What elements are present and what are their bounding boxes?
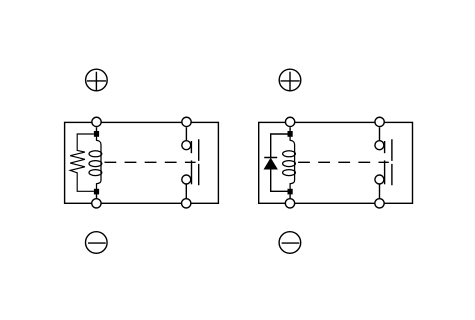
pin 4 (182, 199, 191, 208)
pin 7 (285, 199, 294, 208)
diode D1 (264, 134, 287, 191)
wire coil bottom junction to pin7 (289, 194, 291, 198)
pin 8 (375, 199, 384, 208)
battery negative terminal BT1- (86, 232, 108, 254)
pin 3 (92, 199, 101, 208)
contact circle NO (375, 175, 384, 184)
node junction bottom (coil/resistor) (94, 189, 99, 195)
contact circle NO (182, 175, 191, 184)
battery negative terminal BT2- (279, 232, 301, 254)
contact circle NC (375, 141, 384, 150)
pin 1 (92, 117, 101, 126)
resistor R1 (70, 134, 94, 191)
node junction top (coil/diode) (288, 131, 293, 137)
contact circle NC (182, 141, 191, 150)
relay K1 body (65, 122, 219, 203)
wire NO contact to pin4 (185, 184, 187, 198)
pin 6 (375, 117, 384, 126)
wire NO contact to pin8 (379, 184, 381, 198)
wire pin1 to coil top junction (96, 127, 98, 131)
relay K2 body (259, 122, 413, 203)
pin 2 (182, 117, 191, 126)
node junction bottom (coil/diode) (288, 189, 293, 195)
contact tick NC (190, 141, 192, 153)
relay coil L1 (89, 137, 102, 189)
armature link dashed line (298, 161, 389, 163)
wire pin2 to NC contact (185, 127, 187, 140)
contact blade (movable) (391, 139, 393, 185)
battery positive terminal BT2+ (279, 69, 301, 91)
wire pin5 to coil top junction (289, 127, 291, 131)
battery positive terminal BT1+ (86, 69, 108, 91)
contact blade (movable) (198, 139, 200, 185)
contact tick NO (384, 160, 386, 184)
contact tick NC (384, 141, 386, 153)
node junction top (coil/resistor) (94, 131, 99, 137)
wire coil bottom junction to pin3 (96, 194, 98, 198)
wire pin6 to NC contact (379, 127, 381, 140)
contact tick NO (191, 160, 193, 184)
armature link dashed line (105, 161, 196, 163)
pin 5 (285, 117, 294, 126)
relay coil L2 (283, 137, 296, 189)
